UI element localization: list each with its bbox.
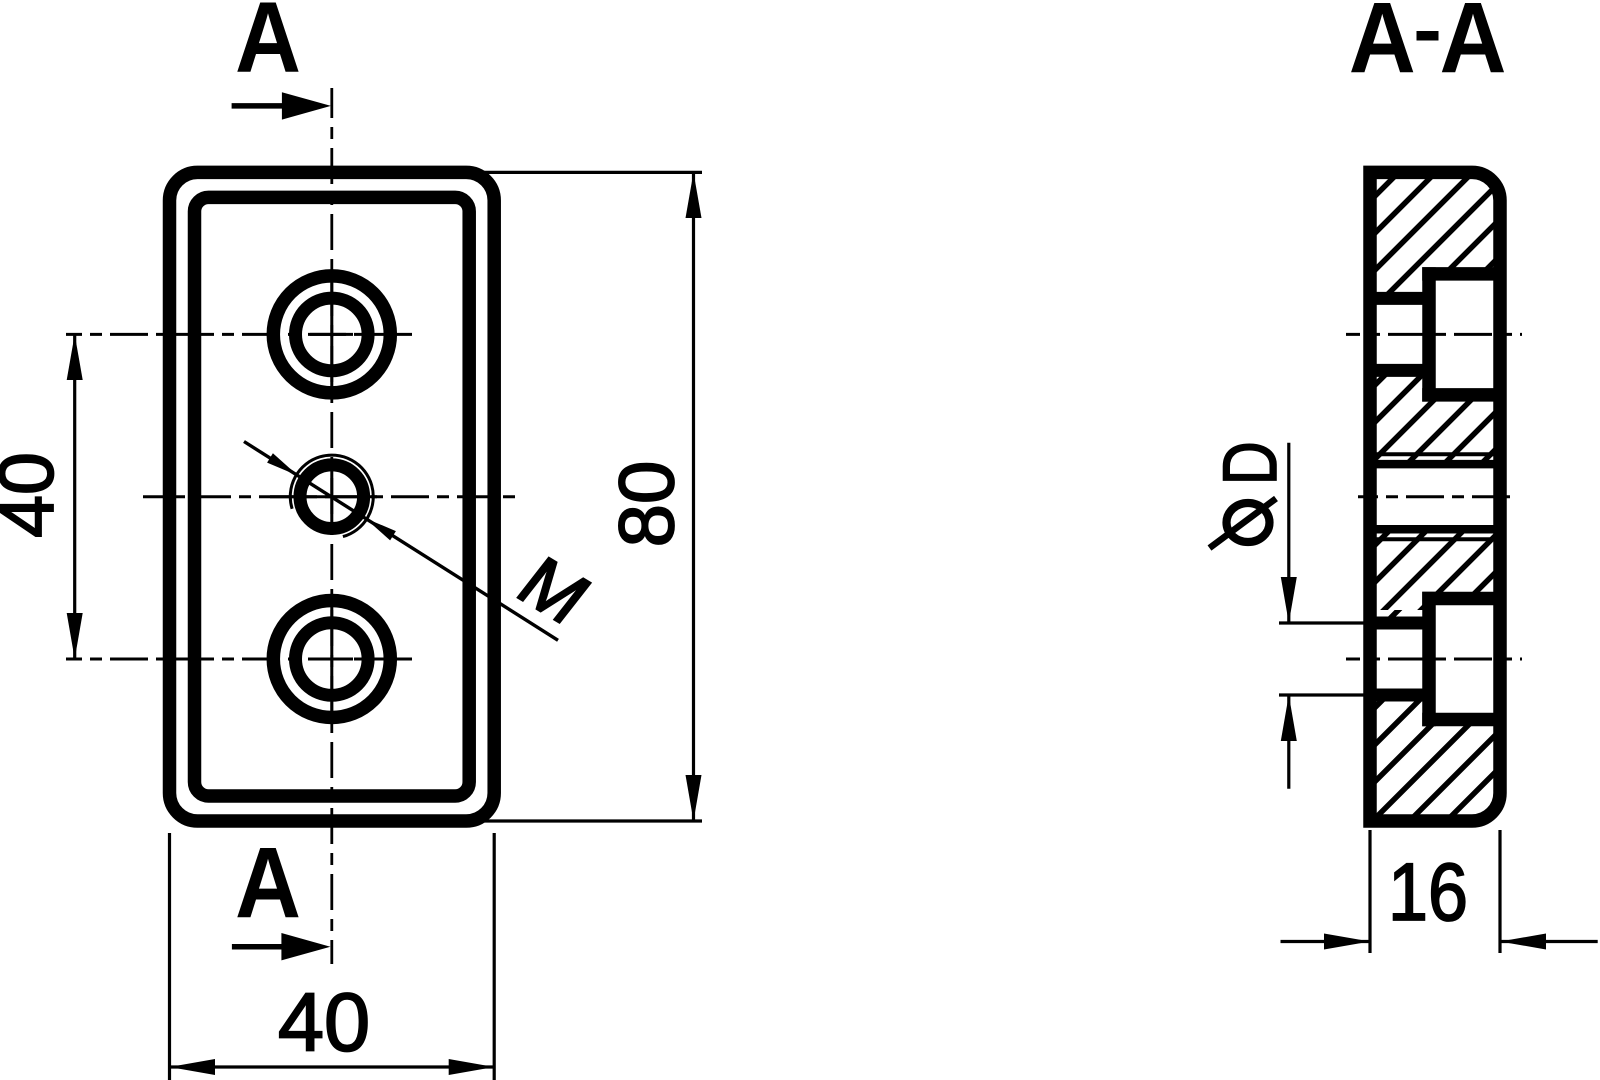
section cut arrow bottom — [232, 944, 287, 950]
dimension D line upper segment — [1287, 443, 1290, 623]
dimension 16 left extension line — [1368, 830, 1371, 953]
section hatching — [683, 165, 1600, 830]
dimension 40 (width) right extension line — [493, 833, 496, 1080]
section: middle hole centerline — [1358, 495, 1512, 498]
bottom hole crosshair solid segments — [310, 658, 353, 661]
dimension 16 arrow right — [1324, 934, 1370, 950]
dimension 40 arrow down — [67, 613, 83, 659]
section: bottom hole counterbore (white) — [1429, 599, 1500, 720]
svg-text:40: 40 — [0, 452, 70, 538]
dimension D line lower segment — [1287, 695, 1290, 789]
section: top hole counterbore (white) — [1429, 274, 1500, 395]
svg-text:A: A — [1440, 0, 1507, 94]
section cut arrow top — [232, 103, 287, 109]
section: top counterbore top line — [1422, 267, 1500, 281]
dimension 40 arrow up — [67, 334, 83, 380]
svg-text:A: A — [1349, 0, 1416, 94]
middle hole: thread major diameter arc (3/4 circle) — [290, 455, 373, 536]
plate inner face outline — [195, 197, 470, 796]
section: middle thread channel (white) — [1366, 464, 1500, 529]
dimension D lower extension line — [1279, 693, 1366, 696]
section: top hole centerline — [1346, 333, 1522, 336]
section: bottom hole centerline — [1346, 658, 1522, 661]
thread leader arrowhead upper-left — [267, 453, 298, 475]
dimension 80 arrow up — [686, 172, 702, 218]
middle hole: tap drill circle — [300, 465, 364, 529]
dimension 80 top extension line — [484, 171, 702, 174]
svg-text:A: A — [235, 827, 301, 939]
dimension 16 line right tail — [1500, 940, 1598, 943]
top hole: drill circle — [296, 298, 369, 371]
section: bottom hole drill channel (white) — [1366, 623, 1429, 695]
dimension 16 line left tail — [1281, 940, 1371, 943]
dimension 40 (width) arrow left — [170, 1059, 216, 1075]
section: bottom counterbore top line — [1422, 592, 1500, 606]
thread leader line — [244, 442, 558, 641]
dimension 80 bottom extension line — [484, 819, 702, 822]
middle hole crosshair solid segments — [270, 495, 377, 498]
front view: vertical centerline — [330, 88, 333, 964]
dimension D upper extension line — [1279, 621, 1366, 624]
svg-text:A: A — [235, 0, 301, 94]
section: bottom hole drill top line — [1364, 617, 1430, 630]
section: thread major line upper (thin) — [1370, 452, 1500, 456]
svg-text:40: 40 — [278, 976, 370, 1069]
svg-text:D: D — [1208, 441, 1293, 485]
dimension 16 right extension line — [1498, 830, 1501, 953]
svg-text:80: 80 — [602, 461, 690, 548]
section: bottom counterbore bottom line — [1422, 713, 1500, 727]
section: top hole drill top line — [1364, 292, 1430, 305]
dimension 80 line — [692, 172, 695, 821]
front view: top hole horizontal centerline / extension line for dim 40 — [66, 333, 415, 336]
thread leader arrowhead lower-right — [365, 518, 396, 540]
section: thread minor line lower (thick) — [1370, 525, 1500, 534]
dimension D arrow down — [1281, 577, 1297, 623]
dimension 40 (width) left extension line — [168, 833, 171, 1080]
top hole: counterbore circle — [273, 276, 390, 393]
section: top counterbore bottom line — [1422, 388, 1500, 402]
section: top hole drill channel (white) — [1366, 298, 1429, 370]
section: thread major line lower (thin) — [1370, 537, 1500, 541]
section: bottom hole drill bottom line — [1364, 689, 1430, 702]
bottom hole: drill circle — [296, 623, 369, 696]
bottom hole: counterbore circle — [273, 601, 390, 718]
dimension 80 arrow down — [686, 775, 702, 821]
dimension 40 (hole spacing) line — [73, 334, 76, 659]
section: thread minor line upper (thick) — [1370, 460, 1500, 469]
section: top counterbore left line — [1422, 267, 1436, 401]
dimension 40 (width) line — [170, 1065, 495, 1068]
section outline — [1370, 172, 1500, 821]
dimension D arrow up — [1281, 695, 1297, 741]
front view: bottom hole horizontal centerline / extension line for dim 40 — [66, 658, 415, 661]
top hole crosshair solid segments — [310, 333, 353, 336]
section: bottom counterbore left line — [1422, 592, 1436, 726]
dimension 16 arrow left — [1500, 934, 1546, 950]
front view: middle hole horizontal centerline — [143, 495, 520, 498]
section: top hole drill bottom line — [1364, 364, 1430, 377]
svg-text:16: 16 — [1388, 847, 1468, 938]
dimension 40 (width) arrow right — [449, 1059, 495, 1075]
plate outer outline (rounded rectangle 40x80) — [170, 172, 495, 821]
